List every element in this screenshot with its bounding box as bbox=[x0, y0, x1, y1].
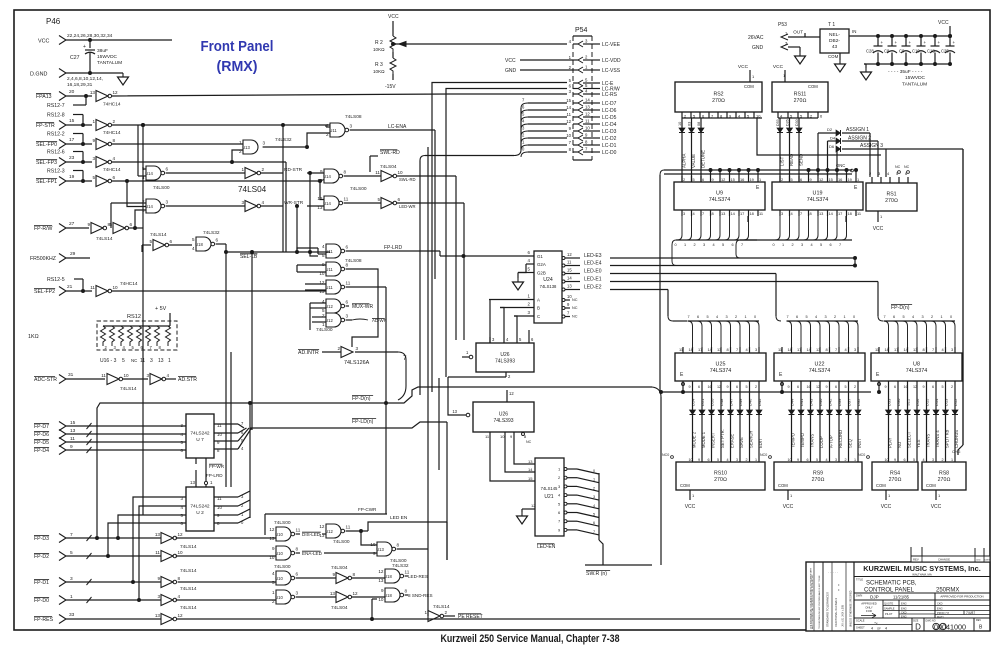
nand U18 sel bbox=[192, 230, 220, 251]
svg-text:PILOT: PILOT bbox=[885, 612, 893, 616]
wire U2 outputs bundle to FP-D bus bbox=[214, 404, 250, 525]
svg-text:CHANGE: CHANGE bbox=[938, 558, 950, 562]
svg-text:74LS04: 74LS04 bbox=[331, 605, 348, 611]
svg-text:270Ω: 270Ω bbox=[712, 98, 725, 104]
wire swr bottom bbox=[603, 560, 661, 565]
svg-text:TRANS 4: TRANS 4 bbox=[935, 430, 940, 448]
svg-text:U18: U18 bbox=[384, 593, 392, 598]
svg-text:SEL-FP0: SEL-FP0 bbox=[36, 142, 57, 148]
svg-text:LED-WR: LED-WR bbox=[399, 204, 416, 209]
svg-text:FP-D7: FP-D7 bbox=[34, 424, 49, 430]
svg-text:4: 4 bbox=[262, 200, 265, 205]
svg-text:DIS-LED: DIS-LED bbox=[302, 532, 321, 537]
svg-text:D49: D49 bbox=[738, 398, 743, 406]
svg-text:.XX ±.01 .XXX ±.005: .XX ±.01 .XXX ±.005 bbox=[842, 604, 845, 627]
svg-text:D4: D4 bbox=[830, 136, 836, 141]
counter U26a 74LS393 bbox=[462, 337, 534, 372]
pin LC-RS bbox=[569, 89, 618, 98]
svg-text:(RMX): (RMX) bbox=[217, 58, 258, 75]
ground T1 bbox=[835, 60, 846, 72]
svg-text:13: 13 bbox=[816, 347, 820, 352]
resistor network RS9 bbox=[774, 462, 862, 490]
svg-text:LC-VSS: LC-VSS bbox=[602, 68, 621, 74]
svg-text:1: 1 bbox=[528, 294, 531, 299]
transceiver U7 bbox=[181, 414, 223, 458]
inverter SEL-FP0 bbox=[92, 138, 115, 150]
svg-text:12: 12 bbox=[317, 196, 323, 201]
clock wires U9 U19 bbox=[748, 216, 846, 222]
svg-text:ENG: ENG bbox=[901, 606, 907, 610]
svg-text:2: 2 bbox=[593, 486, 595, 490]
inverter SEL-FP3 bbox=[92, 156, 115, 168]
svg-text:P54: P54 bbox=[575, 27, 588, 34]
svg-text:16: 16 bbox=[708, 385, 712, 389]
svg-text:ASSIGN 3: ASSIGN 3 bbox=[860, 143, 883, 149]
svg-text:12: 12 bbox=[913, 385, 917, 389]
svg-text:4: 4 bbox=[528, 258, 531, 263]
svg-text:DB2-: DB2- bbox=[829, 38, 840, 44]
svg-text:17: 17 bbox=[740, 211, 744, 216]
svg-text:6: 6 bbox=[893, 315, 895, 319]
svg-text:5: 5 bbox=[942, 385, 944, 389]
svg-text:12: 12 bbox=[319, 524, 325, 529]
svg-text:27: 27 bbox=[69, 221, 75, 227]
label RD-STR bbox=[261, 167, 324, 175]
svg-text:9: 9 bbox=[894, 458, 896, 462]
svg-text:10KΩ: 10KΩ bbox=[373, 69, 385, 74]
svg-text:DWN: DWN bbox=[856, 594, 862, 598]
svg-text:4: 4 bbox=[912, 315, 914, 319]
svg-text:D33: D33 bbox=[887, 398, 892, 406]
svg-text:15: 15 bbox=[731, 177, 735, 182]
svg-text:C: C bbox=[537, 314, 540, 319]
svg-text:19: 19 bbox=[848, 177, 852, 182]
title text lines bbox=[854, 578, 990, 594]
svg-text:08: 08 bbox=[697, 122, 701, 126]
svg-text:D13: D13 bbox=[944, 398, 949, 406]
svg-text:D43: D43 bbox=[809, 398, 814, 406]
nand U13 b bbox=[370, 542, 406, 564]
svg-text:12: 12 bbox=[819, 177, 823, 182]
wire top feed bus U9/U19 bbox=[660, 169, 858, 393]
nand U14 swl bbox=[317, 169, 366, 192]
resistor network RS2 bbox=[675, 64, 762, 112]
svg-text:CKD: CKD bbox=[937, 601, 943, 605]
pin LC-D2 bbox=[566, 133, 616, 142]
svg-text:FP-R/W: FP-R/W bbox=[34, 226, 53, 232]
resistor R3 bbox=[373, 52, 396, 90]
wire output bundle U22 with diodes bbox=[788, 381, 863, 455]
svg-text:9: 9 bbox=[87, 222, 90, 227]
svg-text:5: 5 bbox=[903, 315, 905, 319]
input FP-RES bbox=[34, 612, 161, 624]
svg-text:RS8: RS8 bbox=[939, 471, 949, 477]
svg-text:E: E bbox=[876, 372, 880, 378]
svg-text:1: 1 bbox=[759, 177, 761, 182]
svg-text:31: 31 bbox=[68, 372, 74, 378]
wire LED-E3 run bbox=[610, 257, 855, 259]
svg-text:D50: D50 bbox=[710, 398, 715, 406]
svg-text:3: 3 bbox=[726, 315, 728, 319]
svg-text:4: 4 bbox=[887, 171, 890, 176]
svg-text:GND: GND bbox=[505, 68, 517, 74]
svg-text:18: 18 bbox=[788, 347, 792, 352]
wire vertical 283 bbox=[282, 125, 284, 252]
svg-text:14: 14 bbox=[567, 276, 572, 281]
svg-text:5: 5 bbox=[820, 243, 822, 247]
inverter U15 FP-R/W a bbox=[87, 222, 110, 234]
svg-text:1KΩ: 1KΩ bbox=[28, 334, 39, 340]
RS2 pin row bbox=[682, 112, 762, 119]
U24 outputs LED-E bbox=[562, 252, 602, 291]
svg-text:D44: D44 bbox=[790, 398, 795, 406]
svg-text:74LS242: 74LS242 bbox=[190, 431, 210, 437]
svg-text:3: 3 bbox=[703, 243, 705, 247]
svg-text:6: 6 bbox=[346, 300, 349, 305]
svg-text:11: 11 bbox=[759, 211, 763, 216]
svg-text:3: 3 bbox=[569, 89, 572, 94]
wire GND to P54 bbox=[505, 68, 573, 74]
svg-text:RS11: RS11 bbox=[794, 92, 807, 98]
svg-text:RS12-5: RS12-5 bbox=[47, 277, 65, 283]
svg-text:3: 3 bbox=[114, 345, 117, 350]
svg-text:5: 5 bbox=[519, 337, 522, 342]
svg-text:TANTALUM: TANTALUM bbox=[97, 60, 122, 66]
svg-text:D: D bbox=[915, 623, 921, 632]
svg-text:3: 3 bbox=[736, 458, 738, 462]
svg-text:PROD 7 8: PROD 7 8 bbox=[937, 611, 949, 615]
svg-text:4: 4 bbox=[871, 627, 873, 631]
svg-text:NEL-: NEL- bbox=[829, 32, 840, 38]
wire FP-STR to U11 bbox=[112, 124, 330, 127]
svg-text:2: 2 bbox=[262, 167, 265, 172]
svg-text:D12: D12 bbox=[953, 398, 958, 406]
svg-text:74LS00: 74LS00 bbox=[274, 520, 291, 526]
wire U22 clock pin bbox=[781, 381, 784, 394]
svg-text:D45: D45 bbox=[757, 398, 762, 406]
svg-text:9: 9 bbox=[569, 126, 572, 131]
inverter FP-D2 bbox=[155, 550, 183, 562]
svg-text:U12: U12 bbox=[325, 304, 333, 309]
label FP-D(n) right bbox=[891, 305, 912, 311]
svg-text:11: 11 bbox=[296, 528, 301, 533]
svg-text:74LS242: 74LS242 bbox=[190, 504, 210, 510]
svg-text:5: 5 bbox=[528, 267, 531, 272]
svg-text:6: 6 bbox=[736, 385, 738, 389]
svg-text:7: 7 bbox=[884, 315, 886, 319]
svg-text:C9: C9 bbox=[899, 49, 905, 54]
svg-text:4: 4 bbox=[506, 337, 509, 342]
svg-text:14: 14 bbox=[566, 105, 571, 110]
svg-text:LIST: LIST bbox=[780, 156, 785, 166]
svg-text:ENG: ENG bbox=[901, 601, 907, 605]
svg-text:YES: YES bbox=[916, 439, 921, 448]
wire LC-R/W staircase bbox=[446, 89, 567, 378]
wire U26a pin2 bbox=[448, 372, 511, 415]
input SEL-FP1 bbox=[36, 174, 92, 186]
pin LC-VSS bbox=[569, 65, 621, 74]
svg-text:U26: U26 bbox=[500, 352, 509, 358]
svg-text:RS12-8: RS12-8 bbox=[47, 113, 65, 119]
input FPA13 bbox=[36, 89, 92, 101]
svg-text:11/21/85: 11/21/85 bbox=[893, 595, 910, 600]
svg-text:12: 12 bbox=[721, 177, 725, 182]
svg-text:U19: U19 bbox=[813, 191, 823, 197]
svg-text:74LS126A: 74LS126A bbox=[344, 360, 370, 366]
svg-text:2: 2 bbox=[931, 315, 933, 319]
svg-text:4: 4 bbox=[942, 347, 945, 352]
svg-text:MODE 2: MODE 2 bbox=[692, 431, 697, 448]
svg-text:- - - - 35uF - - - -: - - - - 35uF - - - - bbox=[888, 69, 923, 75]
svg-text:9: 9 bbox=[797, 458, 799, 462]
pin LC-D0 bbox=[569, 147, 617, 156]
svg-text:2: 2 bbox=[569, 65, 572, 70]
svg-text:18: 18 bbox=[750, 211, 754, 216]
svg-text:D30: D30 bbox=[896, 398, 901, 406]
resistor R2 bbox=[373, 14, 399, 52]
svg-text:G2A: G2A bbox=[537, 262, 546, 267]
svg-text:74LS14: 74LS14 bbox=[120, 386, 137, 392]
svg-text:E: E bbox=[680, 372, 684, 378]
nand U16 b bbox=[142, 199, 169, 213]
svg-text:03: 03 bbox=[688, 122, 692, 126]
svg-text:4: 4 bbox=[569, 39, 572, 44]
svg-text:7: 7 bbox=[835, 347, 837, 352]
svg-text:4: 4 bbox=[727, 458, 729, 462]
svg-text:6: 6 bbox=[593, 521, 595, 525]
svg-text:8: 8 bbox=[296, 547, 299, 552]
svg-text:2: 2 bbox=[445, 610, 448, 615]
svg-text:3: 3 bbox=[854, 347, 856, 352]
svg-text:74LS374: 74LS374 bbox=[809, 368, 831, 374]
svg-text:LED-E0: LED-E0 bbox=[584, 269, 602, 275]
svg-text:0: 0 bbox=[853, 315, 855, 319]
resistor network RS10 bbox=[676, 462, 765, 490]
svg-text:12: 12 bbox=[816, 385, 820, 389]
svg-text:11: 11 bbox=[875, 347, 879, 352]
inverter SEL-FP2 bbox=[90, 281, 138, 297]
svg-text:9: 9 bbox=[923, 385, 925, 389]
svg-text:LOOP: LOOP bbox=[819, 436, 824, 448]
latch U19 74LS374 bbox=[772, 176, 863, 216]
input FP-R/W bbox=[34, 221, 89, 233]
svg-text:11: 11 bbox=[567, 260, 572, 265]
svg-text:SEL-FP3: SEL-FP3 bbox=[36, 160, 57, 166]
svg-text:6: 6 bbox=[797, 385, 799, 389]
wire RS11 outputs with diodes bbox=[776, 118, 804, 182]
svg-text:13: 13 bbox=[717, 347, 721, 352]
ground P53 bbox=[795, 47, 806, 64]
inverter SWL-RD bbox=[344, 164, 456, 182]
svg-text:8 SND-RES: 8 SND-RES bbox=[408, 593, 433, 598]
svg-text:D47: D47 bbox=[729, 398, 734, 406]
svg-text:LC-D0: LC-D0 bbox=[602, 150, 617, 156]
svg-text:EDIT: EDIT bbox=[758, 438, 763, 448]
svg-text:-15V: -15V bbox=[385, 84, 396, 90]
svg-text:P53: P53 bbox=[778, 22, 787, 28]
svg-text:G1: G1 bbox=[537, 254, 543, 259]
svg-text:ENG: ENG bbox=[937, 606, 943, 610]
svg-text:COM: COM bbox=[828, 54, 839, 59]
wire U18d pin10 riser bbox=[372, 599, 377, 619]
svg-text:C27: C27 bbox=[70, 55, 80, 61]
svg-text:T 1: T 1 bbox=[828, 22, 835, 28]
ground at D.GND bbox=[118, 73, 129, 85]
svg-text:74LS00: 74LS00 bbox=[350, 186, 367, 192]
svg-text:3: 3 bbox=[92, 156, 95, 161]
svg-text:1: 1 bbox=[569, 55, 572, 60]
svg-text:5: 5 bbox=[522, 112, 525, 117]
U24 outputs NC bbox=[562, 294, 578, 319]
svg-text:2: 2 bbox=[337, 346, 340, 351]
svg-text:38uF: 38uF bbox=[97, 48, 108, 54]
svg-text:6: 6 bbox=[113, 175, 116, 180]
svg-text:7: 7 bbox=[702, 211, 704, 216]
svg-text:U11: U11 bbox=[325, 285, 333, 290]
svg-text:2: 2 bbox=[683, 177, 685, 182]
svg-text:C19: C19 bbox=[912, 49, 920, 54]
svg-text:SAMPLE: SAMPLE bbox=[884, 606, 895, 610]
svg-text:74LS04: 74LS04 bbox=[238, 185, 267, 194]
diode ASSIGN 2 bbox=[828, 136, 879, 178]
svg-text:11: 11 bbox=[857, 211, 861, 216]
svg-text:13: 13 bbox=[155, 613, 161, 618]
wire U26b to U21 bbox=[490, 438, 535, 481]
wire U25 clock pin bbox=[682, 381, 685, 394]
svg-text:6: 6 bbox=[835, 385, 837, 389]
svg-text:8: 8 bbox=[353, 572, 356, 577]
wire LC data fan bus bbox=[521, 98, 567, 158]
svg-text:4: 4 bbox=[123, 345, 126, 350]
svg-text:FP-RES: FP-RES bbox=[34, 617, 54, 623]
svg-text:D42: D42 bbox=[828, 398, 833, 406]
svg-text:15: 15 bbox=[566, 98, 571, 103]
svg-text:4: 4 bbox=[826, 458, 828, 462]
svg-text:1: 1 bbox=[844, 315, 846, 319]
svg-text:74LS32: 74LS32 bbox=[203, 230, 220, 236]
svg-text:+: + bbox=[881, 40, 884, 45]
wire U7 outputs bundle to FP-LD bus bbox=[214, 421, 252, 451]
inverter PE RESET bbox=[424, 604, 449, 622]
svg-text:C18: C18 bbox=[927, 49, 935, 54]
svg-text:1: 1 bbox=[241, 167, 244, 172]
svg-text:1: 1 bbox=[745, 315, 747, 319]
svg-text:5: 5 bbox=[122, 358, 125, 364]
svg-text:11: 11 bbox=[155, 550, 160, 555]
svg-text:UNLESS OTHERWISE SPECIFIED: UNLESS OTHERWISE SPECIFIED bbox=[851, 590, 853, 627]
svg-text:1: 1 bbox=[558, 467, 561, 472]
svg-text:D2: D2 bbox=[827, 127, 833, 132]
input FP-D4 bbox=[34, 444, 186, 455]
svg-text:2: 2 bbox=[792, 243, 794, 247]
svg-text:5: 5 bbox=[722, 243, 724, 247]
svg-text:LED EN: LED EN bbox=[390, 515, 408, 521]
svg-text:7: 7 bbox=[522, 98, 525, 103]
wire RS4 VCC bbox=[881, 490, 892, 510]
svg-text:3: 3 bbox=[683, 211, 685, 216]
svg-text:74LS00: 74LS00 bbox=[333, 539, 350, 545]
svg-text:5: 5 bbox=[92, 175, 95, 180]
svg-text:COM: COM bbox=[876, 483, 886, 488]
company name bbox=[854, 564, 990, 577]
svg-text:CHG: CHG bbox=[952, 450, 960, 454]
decoder U21 74LS145 bbox=[535, 458, 564, 536]
resistor ref RS12-6 bbox=[47, 150, 83, 163]
svg-text:C28: C28 bbox=[866, 49, 874, 54]
resistor ref RS12-8 bbox=[47, 113, 83, 126]
svg-text:VCC: VCC bbox=[783, 504, 794, 510]
pin LC-R/W bbox=[569, 83, 620, 92]
svg-text:11: 11 bbox=[375, 170, 380, 175]
wire FP-R/W riser bbox=[111, 203, 146, 230]
inverter FP-D1 bbox=[157, 576, 180, 588]
svg-text:4: 4 bbox=[558, 493, 561, 498]
svg-text:7: 7 bbox=[741, 243, 743, 247]
wire sel riser drops bbox=[142, 245, 252, 430]
svg-text:1: 1 bbox=[880, 214, 883, 219]
svg-text:5: 5 bbox=[845, 385, 847, 389]
svg-text:5: 5 bbox=[746, 385, 748, 389]
svg-text:9: 9 bbox=[510, 434, 513, 439]
wire bundle bracket 7 bbox=[355, 352, 407, 400]
svg-text:74LS145: 74LS145 bbox=[541, 486, 558, 491]
svg-text:U8: U8 bbox=[913, 362, 920, 368]
svg-text:NC: NC bbox=[572, 298, 578, 302]
svg-text:1: 1 bbox=[854, 458, 856, 462]
svg-text:12: 12 bbox=[269, 527, 275, 532]
power pin VCC bbox=[38, 33, 172, 45]
svg-text:10: 10 bbox=[885, 458, 889, 462]
svg-text:8: 8 bbox=[159, 345, 162, 350]
svg-text:15: 15 bbox=[567, 268, 572, 273]
svg-text:FP-LRD: FP-LRD bbox=[384, 245, 402, 251]
svg-text:S21: S21 bbox=[906, 398, 911, 406]
inverter FP-D0 bbox=[157, 594, 180, 606]
resistor network RS1 bbox=[866, 183, 917, 211]
svg-text:6: 6 bbox=[698, 385, 700, 389]
svg-text:LED-RES: LED-RES bbox=[408, 574, 428, 579]
wire U13b out down bbox=[397, 549, 428, 616]
svg-text:+: + bbox=[938, 40, 941, 45]
svg-text:LC-D2: LC-D2 bbox=[602, 136, 617, 142]
svg-text:6: 6 bbox=[904, 458, 906, 462]
label ENA-LED bbox=[296, 551, 377, 556]
svg-text:13: 13 bbox=[158, 358, 164, 364]
inverter ADC-STR 2 bbox=[146, 373, 169, 385]
svg-text:7: 7 bbox=[787, 315, 789, 319]
svg-text:LED-E3: LED-E3 bbox=[584, 253, 602, 259]
wire FP-D0 inv to U10 bbox=[176, 599, 276, 601]
wire RS1 VCC bbox=[873, 211, 884, 232]
pin LC-D7 bbox=[566, 98, 616, 107]
svg-text:11: 11 bbox=[90, 285, 95, 290]
svg-text:4: 4 bbox=[113, 156, 116, 161]
wire FPA13 to LC-RS bbox=[112, 94, 567, 96]
svg-text:U 2: U 2 bbox=[196, 510, 204, 516]
wire LED-E4 run bbox=[610, 265, 855, 267]
svg-text:0: 0 bbox=[754, 315, 756, 319]
svg-text:0: 0 bbox=[522, 147, 525, 152]
svg-text:U13: U13 bbox=[376, 547, 384, 552]
wire rd/wr drops bbox=[297, 173, 310, 252]
svg-text:13: 13 bbox=[317, 205, 323, 210]
svg-text:5: 5 bbox=[806, 315, 808, 319]
svg-text:1: 1 bbox=[857, 177, 859, 182]
svg-text:2: 2 bbox=[522, 133, 525, 138]
svg-text:U11: U11 bbox=[329, 128, 337, 133]
svg-text:TO KURZWEIL MUSIC SYSTEMS AND: TO KURZWEIL MUSIC SYSTEMS AND IS NOT TO … bbox=[818, 575, 821, 629]
wire long vertical B bbox=[419, 161, 421, 396]
